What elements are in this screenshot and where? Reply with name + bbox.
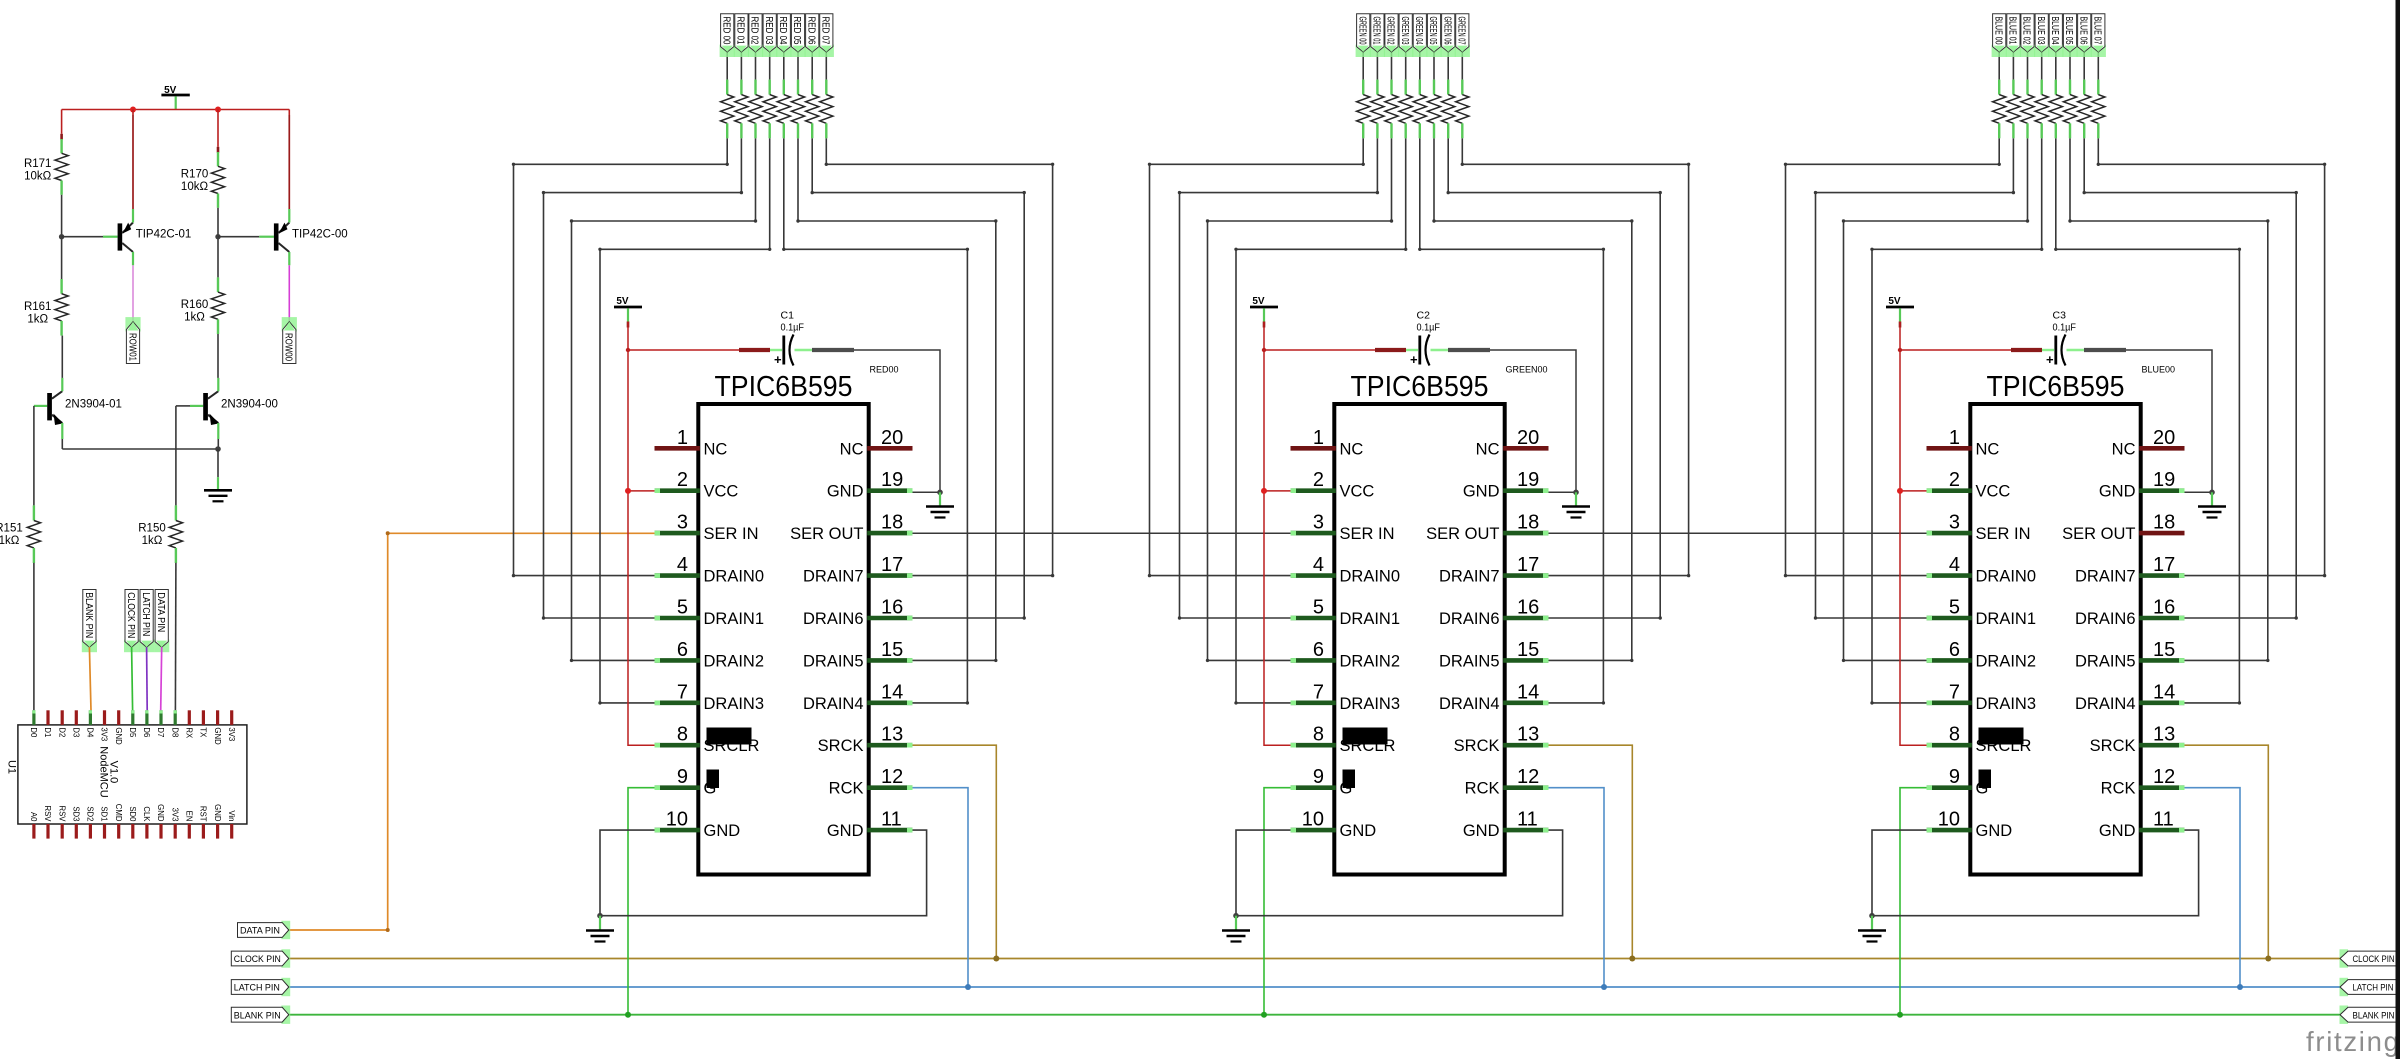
svg-text:GREEN 00: GREEN 00 xyxy=(1356,17,1368,45)
svg-text:SD2: SD2 xyxy=(86,806,95,821)
svg-text:CMD: CMD xyxy=(114,804,123,822)
svg-text:R161: R161 xyxy=(24,301,52,313)
svg-text:15: 15 xyxy=(2153,639,2175,661)
svg-text:20: 20 xyxy=(881,427,903,449)
svg-text:Vin: Vin xyxy=(227,810,236,821)
svg-text:R160: R160 xyxy=(181,299,209,311)
svg-text:DRAIN6: DRAIN6 xyxy=(1439,610,1500,628)
svg-text:11: 11 xyxy=(881,809,902,831)
svg-text:SRCK: SRCK xyxy=(818,737,864,755)
svg-text:4: 4 xyxy=(1949,554,1960,576)
svg-text:DATA PIN: DATA PIN xyxy=(155,592,166,632)
svg-text:BLANK PIN: BLANK PIN xyxy=(234,1010,281,1021)
svg-text:CLOCK PIN: CLOCK PIN xyxy=(234,954,281,965)
svg-text:D2: D2 xyxy=(57,727,66,737)
svg-text:GREEN 04: GREEN 04 xyxy=(1413,17,1425,45)
svg-text:+: + xyxy=(774,352,782,367)
svg-text:GND: GND xyxy=(2099,822,2136,840)
svg-text:15: 15 xyxy=(1517,639,1539,661)
svg-text:GREEN 05: GREEN 05 xyxy=(1427,17,1439,45)
svg-text:RED 06: RED 06 xyxy=(805,17,817,45)
svg-text:SRCK: SRCK xyxy=(2090,737,2136,755)
svg-text:RST: RST xyxy=(199,806,208,822)
svg-text:NC: NC xyxy=(2112,440,2136,458)
svg-text:GREEN 03: GREEN 03 xyxy=(1399,17,1411,45)
svg-text:U1: U1 xyxy=(6,760,18,774)
svg-text:TPIC6B595: TPIC6B595 xyxy=(1351,371,1489,403)
svg-text:19: 19 xyxy=(1517,469,1539,491)
svg-text:4: 4 xyxy=(677,554,688,576)
svg-text:1kΩ: 1kΩ xyxy=(142,535,163,547)
svg-text:DRAIN3: DRAIN3 xyxy=(704,695,765,713)
svg-text:10: 10 xyxy=(1302,809,1324,831)
svg-text:18: 18 xyxy=(1517,512,1539,534)
svg-text:9: 9 xyxy=(1949,766,1960,788)
svg-text:GREEN 06: GREEN 06 xyxy=(1441,17,1453,45)
svg-text:DRAIN6: DRAIN6 xyxy=(803,610,864,628)
svg-text:2: 2 xyxy=(1949,469,1960,491)
svg-text:BLUE00: BLUE00 xyxy=(2142,365,2176,375)
svg-text:D3: D3 xyxy=(72,727,81,737)
svg-text:DRAIN2: DRAIN2 xyxy=(1340,652,1401,670)
svg-text:8: 8 xyxy=(1313,724,1324,746)
svg-text:GND: GND xyxy=(827,822,864,840)
svg-text:SD1: SD1 xyxy=(100,806,109,821)
svg-text:DRAIN2: DRAIN2 xyxy=(704,652,765,670)
svg-text:14: 14 xyxy=(2153,681,2175,703)
svg-text:RED 01: RED 01 xyxy=(735,17,747,45)
svg-text:LATCH PIN: LATCH PIN xyxy=(234,983,280,994)
svg-text:2: 2 xyxy=(1313,469,1324,491)
svg-text:RED 00: RED 00 xyxy=(720,17,732,45)
svg-text:DRAIN5: DRAIN5 xyxy=(2075,652,2136,670)
svg-text:RSV: RSV xyxy=(43,805,52,822)
svg-text:20: 20 xyxy=(1517,427,1539,449)
svg-text:D4: D4 xyxy=(86,727,95,738)
svg-text:12: 12 xyxy=(2153,766,2175,788)
svg-text:RED 07: RED 07 xyxy=(820,17,832,45)
svg-text:3V3: 3V3 xyxy=(170,808,179,822)
svg-text:DRAIN2: DRAIN2 xyxy=(1976,652,2037,670)
svg-text:7: 7 xyxy=(1949,681,1960,703)
svg-text:GND: GND xyxy=(1463,822,1500,840)
svg-text:GND: GND xyxy=(2099,483,2136,501)
svg-text:3: 3 xyxy=(1313,512,1324,534)
svg-text:TX: TX xyxy=(199,727,208,738)
svg-text:SER OUT: SER OUT xyxy=(2062,525,2135,543)
svg-text:GND: GND xyxy=(213,804,222,822)
svg-text:12: 12 xyxy=(881,766,903,788)
svg-text:GND: GND xyxy=(213,727,222,745)
svg-text:DRAIN7: DRAIN7 xyxy=(2075,568,2136,586)
svg-text:1kΩ: 1kΩ xyxy=(0,535,20,547)
svg-text:1kΩ: 1kΩ xyxy=(184,312,205,324)
svg-text:DRAIN4: DRAIN4 xyxy=(803,695,864,713)
svg-text:7: 7 xyxy=(677,681,688,703)
svg-text:13: 13 xyxy=(881,724,903,746)
svg-text:BLUE 01: BLUE 01 xyxy=(2007,17,2019,45)
svg-text:DRAIN7: DRAIN7 xyxy=(1439,568,1500,586)
svg-text:DRAIN0: DRAIN0 xyxy=(1340,568,1401,586)
svg-text:3: 3 xyxy=(677,512,688,534)
svg-text:DATA PIN: DATA PIN xyxy=(240,926,280,937)
svg-text:VCC: VCC xyxy=(1340,483,1375,501)
svg-text:DRAIN5: DRAIN5 xyxy=(1439,652,1500,670)
svg-text:RCK: RCK xyxy=(829,780,864,798)
svg-text:R170: R170 xyxy=(181,169,209,181)
svg-text:BLUE 03: BLUE 03 xyxy=(2035,17,2047,45)
svg-text:GND: GND xyxy=(1463,483,1500,501)
svg-text:A0: A0 xyxy=(29,812,38,822)
svg-text:0.1µF: 0.1µF xyxy=(781,322,805,334)
svg-text:2N3904-01: 2N3904-01 xyxy=(65,399,122,411)
svg-text:C3: C3 xyxy=(2053,310,2067,322)
svg-text:17: 17 xyxy=(881,554,903,576)
svg-text:TIP42C-01: TIP42C-01 xyxy=(136,229,192,241)
svg-text:1: 1 xyxy=(1313,427,1324,449)
svg-text:GND: GND xyxy=(1340,822,1377,840)
svg-text:ROW01: ROW01 xyxy=(126,333,137,361)
svg-text:GND: GND xyxy=(827,483,864,501)
svg-text:14: 14 xyxy=(881,681,903,703)
svg-text:RED00: RED00 xyxy=(870,365,899,375)
svg-text:fritzing: fritzing xyxy=(2306,1026,2400,1057)
svg-text:R171: R171 xyxy=(24,158,52,170)
svg-text:SD0: SD0 xyxy=(128,806,137,822)
svg-text:GREEN 07: GREEN 07 xyxy=(1456,17,1468,45)
svg-text:C1: C1 xyxy=(781,310,795,322)
svg-text:6: 6 xyxy=(1949,639,1960,661)
svg-text:1: 1 xyxy=(677,427,688,449)
svg-text:LATCH PIN: LATCH PIN xyxy=(140,592,151,636)
svg-text:19: 19 xyxy=(2153,469,2175,491)
svg-text:CLOCK PIN: CLOCK PIN xyxy=(2353,954,2395,965)
svg-text:1kΩ: 1kΩ xyxy=(27,314,48,326)
svg-text:3V3: 3V3 xyxy=(227,727,236,741)
svg-text:8: 8 xyxy=(677,724,688,746)
svg-text:5V: 5V xyxy=(1252,296,1265,307)
svg-text:GREEN00: GREEN00 xyxy=(1506,365,1548,375)
svg-text:GND: GND xyxy=(156,804,165,822)
svg-text:NC: NC xyxy=(1476,440,1500,458)
svg-text:RED 05: RED 05 xyxy=(791,17,803,45)
svg-text:DRAIN7: DRAIN7 xyxy=(803,568,864,586)
svg-text:TPIC6B595: TPIC6B595 xyxy=(715,371,853,403)
svg-text:SER OUT: SER OUT xyxy=(1426,525,1499,543)
svg-text:+: + xyxy=(1410,352,1418,367)
svg-text:GND: GND xyxy=(704,822,741,840)
svg-text:GND: GND xyxy=(114,727,123,745)
svg-text:BLUE 07: BLUE 07 xyxy=(2092,17,2104,45)
svg-text:5V: 5V xyxy=(616,296,629,307)
svg-text:DRAIN0: DRAIN0 xyxy=(1976,568,2037,586)
svg-text:D6: D6 xyxy=(142,727,151,737)
svg-text:SER OUT: SER OUT xyxy=(790,525,863,543)
svg-text:4: 4 xyxy=(1313,554,1324,576)
svg-text:6: 6 xyxy=(1313,639,1324,661)
svg-text:DRAIN4: DRAIN4 xyxy=(1439,695,1500,713)
svg-text:16: 16 xyxy=(2153,597,2175,619)
svg-text:11: 11 xyxy=(1517,809,1538,831)
svg-text:D5: D5 xyxy=(128,727,137,738)
svg-text:10kΩ: 10kΩ xyxy=(24,171,52,183)
svg-text:D8: D8 xyxy=(170,727,179,737)
svg-text:20: 20 xyxy=(2153,427,2175,449)
svg-text:DRAIN0: DRAIN0 xyxy=(704,568,765,586)
svg-text:18: 18 xyxy=(881,512,903,534)
svg-text:2N3904-00: 2N3904-00 xyxy=(221,399,278,411)
svg-text:CLK: CLK xyxy=(142,806,151,822)
svg-text:RX: RX xyxy=(185,727,194,739)
svg-text:NC: NC xyxy=(840,440,864,458)
svg-text:D1: D1 xyxy=(43,727,52,737)
svg-text:5: 5 xyxy=(1313,597,1324,619)
svg-text:SD3: SD3 xyxy=(72,806,81,821)
svg-text:DRAIN6: DRAIN6 xyxy=(2075,610,2136,628)
svg-text:TIP42C-00: TIP42C-00 xyxy=(292,229,348,241)
svg-text:RCK: RCK xyxy=(2101,780,2136,798)
svg-text:1: 1 xyxy=(1949,427,1960,449)
svg-text:DRAIN3: DRAIN3 xyxy=(1340,695,1401,713)
svg-text:16: 16 xyxy=(1517,597,1539,619)
svg-text:10: 10 xyxy=(1938,809,1960,831)
svg-text:7: 7 xyxy=(1313,681,1324,703)
svg-text:RED 04: RED 04 xyxy=(777,17,789,45)
svg-text:SER IN: SER IN xyxy=(704,525,759,543)
svg-text:RED 03: RED 03 xyxy=(763,17,775,45)
svg-text:13: 13 xyxy=(1517,724,1539,746)
svg-text:17: 17 xyxy=(1517,554,1539,576)
svg-text:VCC: VCC xyxy=(1976,483,2011,501)
svg-text:BLANK PIN: BLANK PIN xyxy=(2353,1010,2395,1021)
svg-text:GREEN 02: GREEN 02 xyxy=(1385,17,1397,45)
svg-text:NodeMCU: NodeMCU xyxy=(97,746,109,797)
svg-text:ROW00: ROW00 xyxy=(283,333,294,361)
svg-text:18: 18 xyxy=(2153,512,2175,534)
svg-text:V1.0: V1.0 xyxy=(108,761,120,784)
svg-text:CLOCK PIN: CLOCK PIN xyxy=(125,592,136,638)
svg-text:9: 9 xyxy=(677,766,688,788)
svg-text:NC: NC xyxy=(1340,440,1364,458)
svg-text:10: 10 xyxy=(666,809,688,831)
svg-text:3V3: 3V3 xyxy=(100,727,109,741)
svg-text:15: 15 xyxy=(881,639,903,661)
svg-text:6: 6 xyxy=(677,639,688,661)
svg-text:0.1µF: 0.1µF xyxy=(1417,322,1441,334)
svg-text:0.1µF: 0.1µF xyxy=(2053,322,2077,334)
svg-text:DRAIN3: DRAIN3 xyxy=(1976,695,2037,713)
svg-text:5V: 5V xyxy=(1888,296,1901,307)
svg-text:19: 19 xyxy=(881,469,903,491)
svg-text:3: 3 xyxy=(1949,512,1960,534)
svg-text:10kΩ: 10kΩ xyxy=(181,181,209,193)
svg-text:VCC: VCC xyxy=(704,483,739,501)
svg-text:RCK: RCK xyxy=(1465,780,1500,798)
svg-text:NC: NC xyxy=(1976,440,2000,458)
svg-text:GREEN 01: GREEN 01 xyxy=(1371,17,1383,45)
svg-text:8: 8 xyxy=(1949,724,1960,746)
svg-text:BLUE 04: BLUE 04 xyxy=(2049,17,2061,45)
svg-text:2: 2 xyxy=(677,469,688,491)
svg-text:12: 12 xyxy=(1517,766,1539,788)
svg-text:BLUE 06: BLUE 06 xyxy=(2077,17,2089,45)
svg-text:+: + xyxy=(2046,352,2054,367)
svg-text:DRAIN1: DRAIN1 xyxy=(1976,610,2037,628)
svg-text:GND: GND xyxy=(1976,822,2013,840)
svg-text:SER IN: SER IN xyxy=(1340,525,1395,543)
svg-text:17: 17 xyxy=(2153,554,2175,576)
svg-text:5: 5 xyxy=(1949,597,1960,619)
svg-text:14: 14 xyxy=(1517,681,1539,703)
svg-text:NC: NC xyxy=(704,440,728,458)
svg-text:16: 16 xyxy=(881,597,903,619)
svg-text:BLANK PIN: BLANK PIN xyxy=(83,592,94,638)
svg-text:13: 13 xyxy=(2153,724,2175,746)
svg-text:C2: C2 xyxy=(1417,310,1431,322)
svg-text:EN: EN xyxy=(185,811,194,822)
svg-text:SER IN: SER IN xyxy=(1976,525,2031,543)
svg-text:D7: D7 xyxy=(156,727,165,737)
svg-text:D0: D0 xyxy=(29,727,38,738)
svg-text:DRAIN5: DRAIN5 xyxy=(803,652,864,670)
svg-text:BLUE 05: BLUE 05 xyxy=(2063,17,2075,45)
svg-text:R151: R151 xyxy=(0,523,23,535)
svg-text:SRCK: SRCK xyxy=(1454,737,1500,755)
svg-text:TPIC6B595: TPIC6B595 xyxy=(1987,371,2125,403)
svg-text:BLUE 00: BLUE 00 xyxy=(1992,17,2004,45)
svg-text:DRAIN1: DRAIN1 xyxy=(704,610,765,628)
svg-text:DRAIN4: DRAIN4 xyxy=(2075,695,2136,713)
svg-text:11: 11 xyxy=(2153,809,2174,831)
svg-text:DRAIN1: DRAIN1 xyxy=(1340,610,1401,628)
svg-text:9: 9 xyxy=(1313,766,1324,788)
svg-text:BLUE 02: BLUE 02 xyxy=(2021,17,2033,45)
svg-text:5: 5 xyxy=(677,597,688,619)
svg-text:RSV: RSV xyxy=(57,805,66,822)
svg-text:LATCH PIN: LATCH PIN xyxy=(2353,983,2394,994)
svg-text:R150: R150 xyxy=(138,523,166,535)
svg-text:RED 02: RED 02 xyxy=(749,17,761,45)
